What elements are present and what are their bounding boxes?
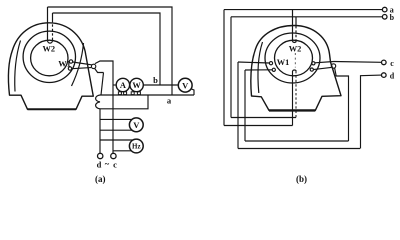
wire d riser (b): [361, 75, 382, 148]
winding W2 bore dashed return (b): [294, 53, 296, 68]
svg-text:c: c: [390, 59, 394, 68]
svg-text:W2: W2: [43, 45, 56, 54]
svg-text:d: d: [390, 72, 395, 81]
wire to terminal c (b): [334, 61, 382, 64]
base bottom thick line (a): [28, 108, 77, 110]
wire x=100 down to terminal d (a): [99, 109, 101, 154]
wire left inner vertical (b): [230, 17, 232, 118]
wire from grommet to node (a): [95, 68, 104, 72]
wire V right drop (a): [191, 89, 194, 95]
wire to frequency meter Hz (a): [100, 139, 133, 141]
wire bottom y=125.5 (b): [224, 125, 293, 127]
W1 exit grommet on housing (b): [331, 64, 335, 68]
wire a horizontal bus (a): [100, 94, 194, 96]
stator outer circle (a): [23, 31, 75, 82]
wire vertical x=113 to terminal c (a): [95, 61, 113, 154]
voltmeter V2 (a): [100, 118, 143, 132]
wire bottom y=141 (b): [245, 140, 349, 142]
wire coil bottom loop (a): [100, 95, 148, 109]
motor housing (a): [8, 23, 93, 110]
housing left lip line (a): [15, 41, 21, 92]
wire W1 lower-right lead (b): [313, 67, 331, 69]
wire left vertical x=238 (b): [237, 62, 239, 149]
wire W1 upper-left lead (b): [238, 62, 270, 63]
winding W2 coil loop (a): [48, 7, 53, 43]
svg-text:d: d: [97, 160, 102, 170]
wire b from W to V (a): [143, 84, 178, 86]
wire lower-right to corner (b): [335, 68, 349, 141]
svg-text:W: W: [132, 81, 141, 90]
wire W1 lower lead (a): [72, 68, 91, 69]
variac coil bumps (a): [96, 95, 100, 109]
svg-text:W2: W2: [289, 45, 302, 54]
frequency meter Hz (a): [113, 139, 143, 153]
wire W1 upper-right lead (b): [315, 62, 334, 63]
svg-text:c: c: [113, 160, 117, 170]
ammeter A (a): [116, 78, 129, 94]
winding W1 right coil hooks (b): [310, 62, 315, 71]
wire bottom y=117.5 (b): [231, 117, 296, 119]
stator inner circle (a): [31, 40, 68, 76]
winding W1 left coil hooks (b): [269, 62, 275, 72]
wire left vertical x=245 (b): [244, 70, 246, 141]
svg-text:W1: W1: [58, 60, 71, 69]
wire top outer a (a): [48, 7, 173, 96]
housing right lip line (a): [72, 43, 84, 86]
terminal d (b): [382, 73, 387, 78]
wire W1 lower-left lead (b): [245, 69, 272, 71]
terminal b (b): [382, 14, 387, 19]
stator outer circle (b): [265, 33, 320, 83]
wire W1 upper lead (a): [73, 62, 93, 65]
terminal a (b): [382, 7, 387, 12]
W1 exit grommet on housing (a): [91, 64, 95, 68]
svg-text:b: b: [153, 75, 158, 85]
wire top a (b): [224, 9, 382, 11]
terminal c (b): [382, 60, 387, 65]
voltmeter V right (a): [178, 78, 192, 92]
wire left outer vertical (b): [223, 10, 225, 126]
wire top inner b (a): [53, 13, 161, 85]
wire vertical x=103.5 (a): [101, 73, 104, 96]
label W2 (b): [287, 44, 303, 54]
svg-text:(b): (b): [296, 174, 307, 184]
terminal c (a): [111, 153, 116, 158]
housing left lip line (b): [258, 42, 263, 93]
wattmeter W (a): [130, 78, 143, 94]
wire bottom y=148.5 (b): [238, 148, 360, 150]
svg-text:A: A: [120, 81, 126, 90]
svg-text:~: ~: [105, 158, 110, 168]
svg-text:V: V: [182, 80, 189, 90]
base bottom thick line (b): [269, 109, 315, 111]
winding W2 top coil loop (b): [293, 10, 297, 43]
svg-text:W1: W1: [277, 58, 290, 67]
svg-text:V: V: [133, 120, 140, 130]
svg-text:Hz: Hz: [132, 143, 141, 151]
wire to voltmeter V2 (a): [100, 118, 132, 120]
wire top b (b): [231, 16, 382, 18]
svg-text:b: b: [390, 13, 395, 22]
winding W2 bottom coil loop (b): [293, 70, 297, 125]
terminal d (a): [98, 153, 103, 158]
wire branch to ammeter A left terminal (a): [113, 84, 116, 86]
motor housing (b): [251, 26, 341, 111]
svg-text:(a): (a): [95, 174, 106, 184]
winding W1 coil hooks (a): [68, 60, 72, 70]
stator inner circle (b): [275, 40, 313, 76]
